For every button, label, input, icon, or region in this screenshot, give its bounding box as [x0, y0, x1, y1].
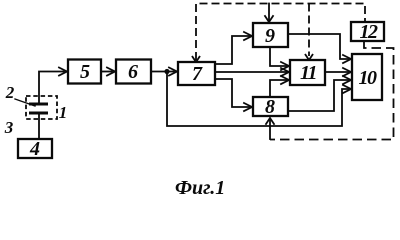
svg-text:6: 6: [128, 61, 138, 83]
svg-text:Фиг.1: Фиг.1: [175, 177, 225, 199]
svg-text:11: 11: [300, 62, 316, 84]
svg-text:1: 1: [59, 103, 68, 122]
svg-text:5: 5: [80, 61, 90, 83]
svg-text:10: 10: [359, 67, 378, 89]
svg-text:4: 4: [29, 138, 40, 160]
svg-text:3: 3: [4, 118, 14, 137]
svg-text:2: 2: [5, 83, 15, 102]
svg-text:9: 9: [265, 25, 275, 47]
svg-text:7: 7: [192, 63, 203, 85]
svg-text:8: 8: [265, 96, 275, 118]
svg-text:12: 12: [360, 21, 379, 43]
